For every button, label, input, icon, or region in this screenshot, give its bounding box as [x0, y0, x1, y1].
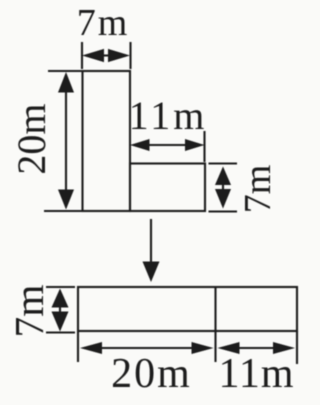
divider line in bottom rectangle [214, 287, 216, 331]
svg-text:7m: 7m [6, 284, 52, 337]
dimension arrow 11m [130, 139, 205, 151]
tick right of 11m dimension [203, 131, 205, 162]
svg-text:11m: 11m [218, 351, 294, 397]
tick left of 20m bottom dimension [77, 331, 79, 362]
label 20m bottom [111, 351, 192, 397]
tick left of 7m top dimension [81, 42, 83, 69]
tick middle of bottom dimensions [214, 331, 216, 362]
bottom rectangle (31m x 7m) [78, 287, 297, 331]
extension line bottom-left [44, 210, 83, 212]
dimension arrow 20m left [58, 72, 74, 210]
svg-text:20m: 20m [9, 103, 54, 174]
label 11m [129, 93, 208, 138]
tick bottom of 7m right dimension [209, 210, 238, 212]
svg-text:7m: 7m [237, 165, 279, 214]
L-shape vertical rectangle (7m x 20m) [83, 71, 131, 211]
dimension arrow 7m right [215, 167, 231, 209]
dimension arrow 20m bottom [80, 342, 214, 354]
label 7m bottom-left (rotated) [6, 284, 52, 337]
tick right of 7m top dimension [129, 42, 131, 69]
label 20m left (rotated) [9, 103, 54, 174]
dimension arrow 11m bottom [218, 342, 296, 354]
tick right of 11m bottom dimension [296, 331, 298, 364]
label 7m top [77, 2, 130, 44]
svg-text:11m: 11m [129, 93, 208, 138]
svg-text:7m: 7m [77, 2, 130, 44]
tick bottom of 7m bottom-left dimension [46, 331, 75, 333]
transform arrow (down) [143, 219, 160, 282]
dimension arrow 7m bottom-left [52, 289, 69, 332]
tick top of 7m right dimension [209, 162, 238, 164]
tick top of 7m bottom-left dimension [46, 286, 75, 288]
label 11m bottom [218, 351, 294, 397]
svg-text:20m: 20m [111, 351, 192, 397]
label 7m right (rotated) [237, 165, 279, 214]
extension line top-left [48, 70, 83, 72]
dimension arrow 7m top [82, 49, 130, 62]
L-shape horizontal rectangle (11m x 7m) [130, 164, 205, 212]
